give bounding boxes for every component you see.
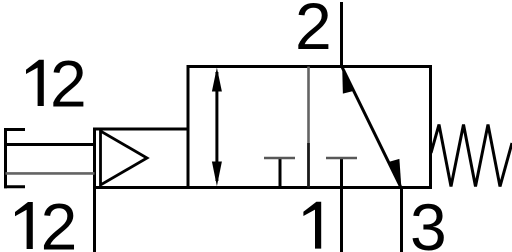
svg-text:2: 2 bbox=[295, 0, 332, 63]
svg-text:3: 3 bbox=[410, 190, 447, 252]
svg-text:2: 2 bbox=[41, 190, 78, 252]
svg-text:2: 2 bbox=[50, 47, 87, 121]
